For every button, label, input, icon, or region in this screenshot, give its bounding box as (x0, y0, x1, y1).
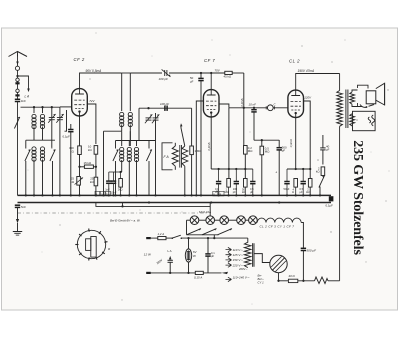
capacitor 10nF bot (111, 172, 117, 195)
capacitor 1nF bot (105, 172, 111, 195)
dial lamp (185, 237, 196, 273)
resistor 1M (190, 108, 203, 195)
capacitor 100pF rc (233, 168, 239, 196)
tap 125V (226, 253, 244, 258)
mains plug bottom (146, 272, 151, 274)
capacitor 0.1uF grid (63, 124, 74, 195)
svg-text:0,1µF: 0,1µF (326, 203, 334, 207)
wire rc rail stub (245, 168, 253, 170)
svg-text:0,4mA: 0,4mA (207, 142, 211, 150)
output transformer core (346, 90, 348, 129)
trimmer C3 (145, 108, 152, 123)
svg-text:µF: µF (190, 80, 194, 84)
wire branch to LA (18, 76, 29, 91)
resistor 50k rc (242, 179, 247, 196)
antenna coupler circle 1 (15, 66, 19, 70)
svg-text:110 V∼: 110 V∼ (233, 248, 244, 252)
output transformer secondary bottom (350, 114, 355, 126)
svg-text:CL 2 CF 3 CY 1 CF 7: CL 2 CF 3 CY 1 CF 7 (260, 225, 295, 229)
svg-text:Ω: Ω (292, 190, 294, 194)
resistor 2k bot (118, 172, 123, 195)
svg-text:50µF: 50µF (284, 187, 290, 191)
resistor 0.2M (244, 146, 254, 179)
svg-text:110–240 V∼: 110–240 V∼ (233, 275, 250, 279)
wire FA primary top (174, 143, 176, 146)
svg-text:2kΩ: 2kΩ (118, 188, 123, 192)
svg-text:45 kΩ: 45 kΩ (224, 75, 232, 79)
wire CF7 right lead (219, 104, 229, 108)
svg-text:235 GW Stolzenfels: 235 GW Stolzenfels (350, 140, 365, 255)
wire CF2 anode (80, 73, 122, 89)
svg-text:CL 2: CL 2 (289, 59, 300, 64)
node rail left a (33, 106, 35, 108)
wire IF1 down a (121, 131, 123, 146)
capacitor 0.1uF rc (215, 168, 221, 196)
svg-text:125 V∼: 125 V∼ (233, 253, 244, 257)
wire FA sec bottom (184, 166, 186, 195)
coil IF2a (120, 147, 124, 172)
FA primary zigzag (172, 146, 178, 166)
label 0.4mA cath (207, 142, 211, 150)
node bus left1 (25, 194, 54, 196)
resistor 15k horiz (80, 161, 98, 168)
wire FA primary bottom (174, 166, 176, 170)
wire screen col down (309, 159, 311, 161)
capacitor 100pF series (160, 102, 169, 111)
selector arm (222, 272, 230, 274)
glow lamp LA (156, 249, 173, 273)
svg-text:190V 47mA: 190V 47mA (298, 69, 315, 73)
wire psu bottom 2 (298, 280, 315, 282)
model name 235 GW Stolzenfels (350, 140, 365, 255)
label CF2 (74, 57, 85, 62)
capacitor 0.5uF rc (250, 169, 256, 195)
tube CF7 (203, 90, 219, 117)
capacitor mains 0.1uF (205, 237, 215, 273)
wire sec top bottom lead (352, 104, 358, 106)
label 12W (144, 253, 152, 257)
label 0.3mA (289, 139, 293, 147)
svg-text:220 V∼: 220 V∼ (232, 263, 244, 267)
tube socket inner rect (86, 239, 91, 251)
tube CL2 (288, 90, 304, 117)
wire IF mid rail (116, 140, 156, 142)
wire CL2 screen (304, 101, 311, 195)
tap 110V (226, 247, 244, 251)
dashed chassis line (18, 212, 208, 214)
wire CF7 anode (210, 73, 212, 90)
label bei (110, 219, 141, 223)
speaker coil curve (360, 105, 374, 108)
svg-text:3nF: 3nF (21, 99, 26, 103)
svg-text:F A: F A (164, 155, 170, 159)
wire rail left mid (26, 139, 55, 141)
label 120V (304, 96, 312, 100)
label 0.4mA right (240, 98, 244, 106)
switch IF right (146, 141, 151, 196)
capacitor 500pF (277, 140, 288, 195)
selector winding (244, 238, 251, 268)
svg-text:M≈0,22A: M≈0,22A (199, 210, 211, 214)
node bus cf7 (195, 194, 254, 203)
label 190V 47mA (298, 69, 315, 73)
wire CL2 anode (296, 74, 340, 91)
tap common (226, 275, 250, 281)
wire rc rail 1 (211, 168, 246, 170)
chassis bus lower (18, 202, 332, 204)
label CF7 (204, 58, 215, 63)
wire CL2 cathode (295, 118, 297, 170)
arrow ground (16, 219, 19, 232)
mains switch (172, 235, 183, 239)
mains plug top (146, 237, 151, 239)
bus terminal block (326, 196, 334, 207)
wire short bar down (213, 235, 215, 238)
antenna arrow (16, 62, 19, 65)
svg-text:Bei E-Gerät 6V∼ a. W.: Bei E-Gerät 6V∼ a. W. (110, 219, 141, 223)
capacitor 50uF screen (190, 72, 204, 196)
coil IF2b (127, 141, 131, 196)
node rail2 (147, 107, 149, 109)
svg-text:CF 7: CF 7 (204, 58, 215, 63)
wire sec top to speaker (352, 90, 358, 92)
wire bot rail left (109, 171, 122, 173)
heater short switch 1 (187, 229, 202, 235)
arrow LA (25, 89, 30, 99)
wire CF2 cathode (79, 116, 81, 195)
tube socket pins (75, 229, 111, 261)
wire IF1 down b (129, 131, 131, 146)
svg-text:1nF: 1nF (105, 188, 110, 192)
field coil squiggle (368, 115, 375, 126)
svg-text:µF: µF (326, 148, 330, 152)
switch fb (319, 176, 324, 197)
wire lamp1 left down (186, 220, 188, 235)
svg-text:5nF: 5nF (21, 205, 26, 209)
heater return sub-bus (96, 203, 210, 208)
trimmer C1 (48, 107, 55, 140)
output transformer primary (337, 91, 343, 127)
FA box (162, 143, 173, 170)
node CF2 cathode (78, 166, 80, 168)
speaker driver (366, 85, 376, 104)
selector common wire (232, 278, 259, 280)
resistor 0.5M col (260, 140, 270, 195)
svg-text:MΩ: MΩ (225, 190, 229, 194)
wire lamp45 (245, 219, 248, 221)
fuse 1.2A (158, 232, 167, 240)
trimmer C2 (56, 107, 63, 196)
switch wave left (25, 140, 30, 195)
capacitor 0.5uF cl2 (300, 169, 306, 195)
svg-text:15 kΩ: 15 kΩ (84, 161, 92, 165)
wire psu bottom (279, 280, 289, 282)
wire 229 down (228, 108, 230, 179)
FA core (180, 145, 182, 168)
tube socket circle (77, 230, 105, 258)
resistor 40ohm (288, 274, 297, 282)
wire rail right ext (130, 72, 162, 74)
wire psu bottom 3 (328, 280, 340, 282)
wire ballast to right (301, 223, 303, 248)
tube socket key rect (91, 237, 96, 258)
node bus FA (184, 194, 193, 196)
wire 10k down (95, 167, 97, 196)
svg-text:µF: µF (300, 190, 303, 194)
tube CF2 (72, 89, 88, 116)
switch wave left2 (50, 140, 55, 195)
svg-text:200V∼: 200V∼ (238, 267, 248, 271)
coil L1a (32, 107, 36, 140)
svg-text:µF: µF (215, 190, 218, 194)
svg-text:150 V∼: 150 V∼ (233, 258, 244, 262)
speaker cone (376, 83, 385, 105)
bus value tags right (213, 191, 224, 196)
heater lamp 3 (220, 216, 229, 225)
capacitor 5nF bus (15, 205, 26, 219)
wire mains bottom (151, 272, 196, 274)
node bus mid (102, 194, 150, 203)
label 70V (215, 68, 221, 72)
resistor cl2 cath (292, 179, 298, 196)
wire lamp23 (215, 219, 220, 221)
node CF7 anode (210, 72, 212, 74)
coil L2a (32, 147, 36, 196)
wire lamp34 (229, 219, 237, 221)
wire IF1 link (104, 131, 122, 195)
tap 220V (226, 263, 249, 271)
antenna element plate 1 (15, 82, 19, 84)
rectifier CY1 (270, 255, 287, 272)
svg-text:120V: 120V (304, 96, 312, 100)
svg-text:kΩ: kΩ (242, 190, 245, 194)
svg-text:+: + (275, 171, 277, 175)
coil L1b (40, 107, 44, 140)
label 72V (89, 99, 95, 103)
wire switch to selector (181, 237, 248, 239)
svg-text:pF: pF (282, 149, 286, 153)
wire antenna lower (17, 102, 19, 196)
coil IF1 secondary (128, 73, 132, 141)
label CY1 (258, 274, 265, 285)
wire CF2 screen (87, 104, 96, 144)
label heater current (199, 210, 211, 214)
heater short switch 3 (218, 229, 233, 235)
potentiometer 25k (70, 177, 83, 186)
node det rail (243, 107, 245, 109)
svg-text:W: W (193, 254, 196, 258)
svg-text:1,2 A: 1,2 A (158, 232, 165, 236)
svg-text:100 pF: 100 pF (160, 102, 169, 106)
capacitor 10nF det (249, 103, 257, 141)
node bus cf2 (70, 194, 97, 196)
bus value tags left (95, 191, 110, 196)
wire bus to heater (209, 203, 211, 216)
wire CL2 grid stub (287, 107, 289, 109)
svg-text:10 nF: 10 nF (249, 103, 257, 107)
coil IF1 primary (120, 73, 124, 131)
coil L2b (40, 147, 44, 196)
resistor 300ohm (69, 146, 81, 155)
heater lamp 2 (206, 216, 215, 225)
node bus cl2 (261, 194, 312, 203)
wire rail2 left down (138, 108, 140, 140)
label heater tubes (260, 225, 295, 229)
svg-text:L A: L A (25, 94, 30, 98)
FA secondary zigzag (182, 146, 188, 166)
capacitor 500uF (301, 248, 316, 282)
node antenna branch (16, 75, 18, 77)
wire rc rail 2 (287, 168, 311, 170)
scan noise specks (decorative) (28, 32, 390, 304)
coil IF2c (134, 141, 138, 196)
resistor 10k (88, 145, 98, 167)
svg-text:500 µF: 500 µF (307, 249, 317, 253)
antenna element plate 2 (15, 94, 19, 96)
wire to output transformer (339, 74, 341, 91)
antenna (9, 52, 28, 57)
chassis bus upper (18, 194, 332, 196)
heater lamp 1 (187, 216, 199, 225)
wire grid link left (65, 110, 67, 131)
jack circle det (266, 102, 276, 110)
ground (13, 232, 22, 236)
resistor 1M rc (225, 179, 231, 196)
heater lamp 5 (249, 216, 258, 225)
tap 150V (226, 258, 244, 263)
wire mains top (151, 237, 158, 239)
antenna coupler circle 3 (16, 89, 19, 92)
wire fuse to switch (166, 237, 172, 239)
svg-text:0,1µF: 0,1µF (63, 135, 71, 139)
resistor 2k cl2 (306, 179, 312, 195)
fuse 0.15A (194, 271, 203, 279)
switch antenna (14, 117, 19, 129)
heater short bar (187, 234, 219, 236)
wire plate rail (122, 72, 131, 74)
output transformer secondary top (350, 92, 355, 104)
wire FA sec top arm (180, 123, 185, 146)
svg-text:µF: µF (250, 190, 253, 194)
wire CF7 cathode (210, 117, 212, 169)
node rail left b (41, 106, 43, 108)
svg-text:12 W: 12 W (144, 253, 152, 257)
wire det rail (229, 107, 288, 109)
wire fuse2 to selector (203, 272, 221, 274)
wire 45k down (243, 73, 245, 146)
label CL2 (289, 59, 300, 64)
wire lamp12 (199, 219, 206, 221)
heater ballast bumps (257, 218, 301, 222)
trimmer C4 (152, 113, 159, 197)
svg-text:L A: L A (168, 249, 172, 253)
resistor 25k2 (90, 177, 98, 186)
wire CF2 grid (60, 106, 72, 108)
coupling trimmer 100pF (159, 69, 202, 81)
antenna coupler circle 2 (16, 78, 19, 81)
svg-text:µF: µF (211, 254, 215, 258)
heater short switch 2 (202, 229, 217, 235)
wire CF7 grid (196, 101, 203, 195)
wire rect bottom (277, 273, 279, 282)
wire transformer down (339, 126, 341, 280)
svg-text:0,4mA: 0,4mA (240, 98, 244, 106)
wire antenna down (17, 53, 19, 99)
heater lamp 4 (237, 216, 246, 225)
capacitor 3nF (15, 99, 26, 103)
wire top rail CF7 (201, 72, 225, 74)
svg-text:100 pF: 100 pF (159, 77, 169, 81)
svg-text:pF: pF (233, 190, 236, 194)
choke zigzag (315, 277, 329, 284)
svg-text:0,15 A: 0,15 A (194, 276, 202, 280)
wire rail left top (21, 106, 61, 108)
wire grid rail 2 (139, 107, 192, 109)
wire avc link (254, 139, 279, 141)
wire 0.5M top (261, 141, 263, 146)
field coil box (353, 111, 376, 130)
resistor 2k fb (316, 166, 325, 175)
svg-text:CF 2: CF 2 (74, 57, 85, 62)
wire selector to rect top (254, 254, 270, 263)
switch IF (113, 141, 118, 196)
svg-text:kΩ: kΩ (306, 190, 309, 194)
resistor 45k horiz (224, 71, 244, 78)
node rail left c (51, 106, 53, 108)
svg-text:CY 1: CY 1 (258, 280, 265, 284)
capacitor 40uF fb (320, 135, 329, 165)
svg-text:40 Ω: 40 Ω (289, 274, 296, 278)
svg-text:10nF: 10nF (111, 191, 117, 195)
selector core (253, 243, 254, 267)
capacitor elytic 50uF (275, 169, 290, 195)
speaker magnet box (358, 85, 369, 106)
svg-text:0,3mA: 0,3mA (289, 139, 293, 147)
label 90V 0.5mA (86, 69, 102, 73)
